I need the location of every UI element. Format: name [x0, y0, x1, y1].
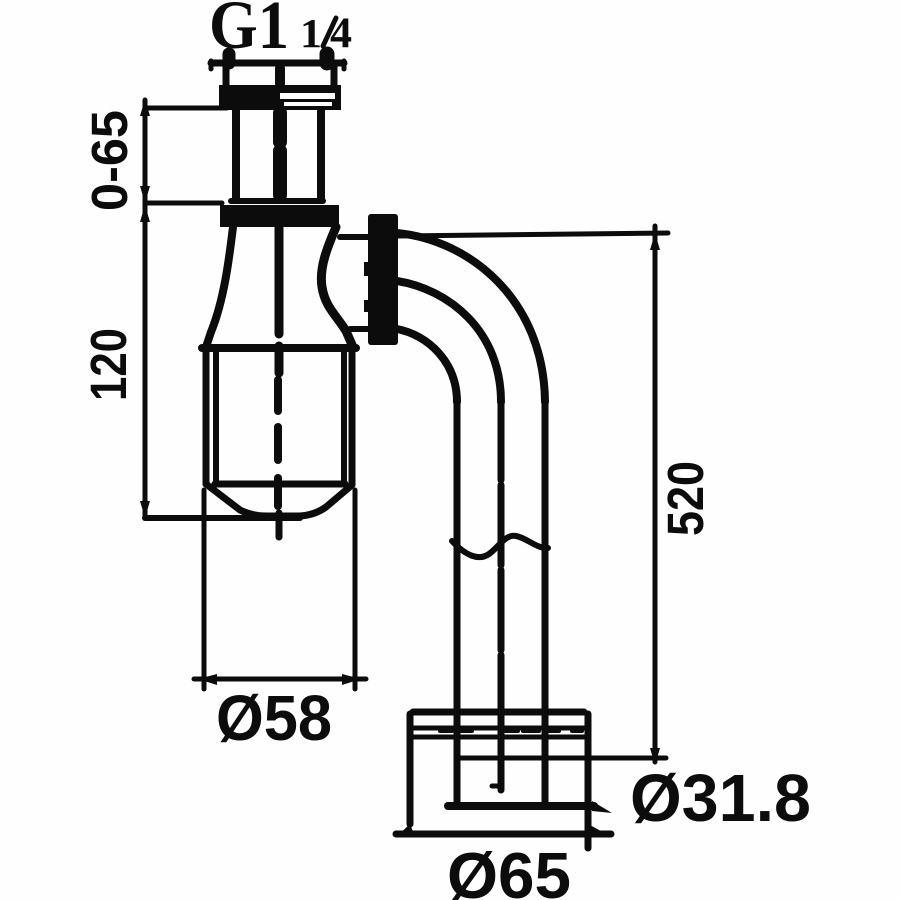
svg-text:Ø31.8: Ø31.8 [630, 761, 811, 836]
outlet stub top edge [340, 234, 370, 240]
dimension 520 top extension line [397, 233, 668, 236]
elbow inner wall [397, 329, 457, 402]
cup outer left wall [203, 352, 210, 484]
svg-text:Ø65: Ø65 [447, 839, 571, 900]
svg-text:G1: G1 [209, 0, 289, 63]
down pipe center line [498, 400, 505, 790]
svg-text:520: 520 [657, 461, 714, 536]
trap body cone right wall with olive bulge [321, 227, 353, 347]
left dimension arrowheads [140, 99, 150, 518]
elbow outer wall [397, 233, 545, 402]
svg-text:1: 1 [300, 10, 322, 56]
svg-text:0-65: 0-65 [81, 110, 138, 211]
cup inner bottom edge [215, 481, 345, 488]
pipe break squiggle [452, 536, 548, 557]
520 arrowheads [650, 233, 660, 765]
upper tube bottom edge [231, 198, 323, 204]
wall flange right wall [585, 714, 592, 848]
pipe socket bottom inside flange [448, 802, 594, 810]
down pipe left wall [454, 400, 461, 806]
dimension text diameter 31.8 [630, 761, 811, 836]
diameter 58 left extension line [202, 490, 207, 689]
cup outer bottom arc [206, 484, 352, 516]
down pipe right wall [542, 400, 549, 802]
thread size label G1 1/4 [209, 0, 352, 63]
cup outer right wall [349, 352, 356, 484]
wall flange rolled rim lines [409, 726, 588, 731]
trap body nut [220, 205, 339, 227]
right vertical dimension line 520 [653, 226, 658, 762]
wall flange bottom edge with feet [396, 831, 611, 838]
wall flange left wall [407, 714, 414, 824]
trap body cone left wall [206, 227, 233, 347]
wall flange top edge [413, 709, 584, 716]
elbow compression nut [364, 214, 398, 345]
left vertical dimension line [143, 100, 148, 518]
dimension text 120 [80, 328, 137, 401]
rim hatch ticks [440, 729, 582, 733]
center axis line of trap [278, 68, 280, 537]
dimension 0-65 extension line top [145, 106, 227, 111]
dimension text diameter 65 [447, 839, 571, 900]
tailpiece top flange [211, 60, 344, 67]
dimension 520 bottom extension line [456, 756, 666, 761]
upper inlet tube walls [232, 110, 240, 200]
outlet stub bottom edge [350, 326, 370, 332]
dimension extension line shared at tube bottom [145, 201, 222, 206]
diameter 58 arrowheads [198, 674, 361, 685]
diameter 58 right extension line [353, 490, 358, 689]
cup joint line [202, 344, 356, 352]
elbow center line [397, 281, 501, 402]
dimension text 0-65 [81, 110, 138, 211]
svg-text:120: 120 [80, 328, 137, 401]
fraction slash of 1/4 [323, 18, 336, 46]
dimension text diameter 58 [216, 682, 332, 754]
diameter 58 dimension line [194, 677, 366, 682]
top slip nut [219, 85, 341, 110]
cup inner left wall [213, 352, 219, 480]
cup inner right wall [341, 352, 347, 480]
dimension 120 extension line at cup bottom [145, 515, 300, 521]
dimension text 520 [657, 461, 714, 536]
svg-text:Ø58: Ø58 [216, 682, 332, 754]
